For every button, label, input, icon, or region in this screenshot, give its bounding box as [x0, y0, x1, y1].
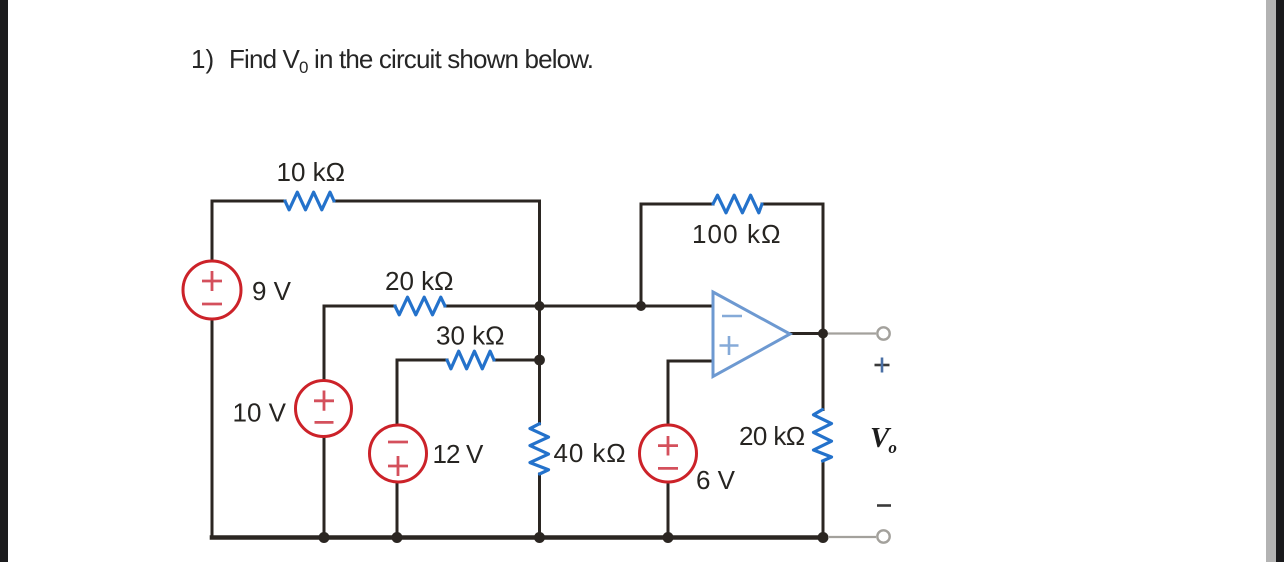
svg-text:9 V: 9 V — [252, 276, 292, 306]
wire: 10V bottom to bottom rail — [323, 438, 326, 538]
svg-text:6 V: 6 V — [696, 465, 736, 495]
wire: 12V branch top to 30k row — [397, 360, 447, 426]
wire: 10V branch top to 20k row — [324, 306, 395, 380]
wire: 12V bottom to bottom rail — [396, 482, 399, 538]
resistor 40k vertical zigzag — [530, 424, 549, 474]
svg-text:10 kΩ: 10 kΩ — [277, 157, 346, 187]
resistor 20k zigzag — [395, 297, 445, 315]
wire: node C to op-amp inverting input — [641, 305, 713, 308]
minus sign at output — [877, 504, 891, 507]
wire: op-amp output to node D — [790, 332, 823, 335]
bottom rail junction dot at 40k branch — [534, 532, 545, 543]
wire: node A to node B — [538, 306, 541, 360]
node C junction dot — [636, 301, 646, 311]
source 6V — [640, 425, 697, 482]
wire: 40k bottom to bottom rail — [538, 474, 541, 538]
wire: node B down to 40k top — [538, 360, 541, 424]
wire: 20k resistor to node A — [445, 305, 540, 308]
source 9V — [183, 261, 241, 319]
svg-text:1): 1) — [191, 44, 214, 74]
wire: node A to node C — [540, 305, 642, 308]
output terminal upper (open circle) — [877, 327, 889, 339]
svg-text:40 kΩ: 40 kΩ — [554, 438, 627, 468]
wire: bottom rail — [212, 535, 823, 540]
svg-text:20 kΩ: 20 kΩ — [739, 421, 805, 451]
wire: 100k resistor to output column — [762, 204, 823, 334]
bottom rail junction dot at 10V branch — [319, 532, 330, 543]
svg-text:10 V: 10 V — [233, 398, 287, 428]
resistor 30k zigzag — [447, 351, 494, 369]
resistor 20k right vertical zigzag — [814, 410, 832, 462]
wire: gray lead to lower output terminal — [828, 536, 876, 538]
wire: node C up and right to 100k resistor — [641, 204, 713, 306]
resistor 10k zigzag — [285, 192, 334, 210]
source 12V — [370, 425, 427, 482]
source 10V — [296, 381, 352, 437]
svg-text:30 kΩ: 30 kΩ — [436, 321, 505, 351]
plus sign at output — [875, 358, 890, 373]
output terminal lower (open circle) — [877, 530, 889, 542]
wire: 9V bottom down left side — [211, 319, 214, 538]
svg-text:100 kΩ: 100 kΩ — [692, 219, 782, 249]
wire: gray lead to upper output terminal — [828, 332, 876, 334]
wire: 10k resistor to node A column (down to -input row) — [334, 201, 540, 306]
node D (output) junction dot — [818, 329, 828, 339]
wire: 6V bottom to bottom rail — [667, 483, 670, 538]
wire: 20k right bottom to bottom rail — [822, 461, 825, 538]
title — [191, 44, 593, 77]
node A junction dot — [535, 301, 545, 311]
svg-text:Find V0 in the circuit shown b: Find V0 in the circuit shown below. — [229, 44, 593, 77]
bottom rail junction dot at output column — [818, 532, 829, 543]
bottom rail junction dot at 6V branch — [663, 532, 674, 543]
wire: 9V top to top-left corner to 10k resistor — [212, 201, 285, 261]
bottom rail junction dot at 12V branch — [392, 532, 403, 543]
svg-text:12 V: 12 V — [433, 439, 484, 469]
wire: 30k resistor to node B — [494, 359, 540, 362]
svg-text:20 kΩ: 20 kΩ — [385, 266, 454, 296]
resistor 100k zigzag — [713, 195, 762, 213]
op-amp U1 — [713, 292, 790, 377]
node B junction dot — [534, 355, 545, 366]
wire: node D down to 20k right top — [822, 334, 825, 410]
wire: op-amp noninverting input to 6V top — [668, 361, 713, 424]
